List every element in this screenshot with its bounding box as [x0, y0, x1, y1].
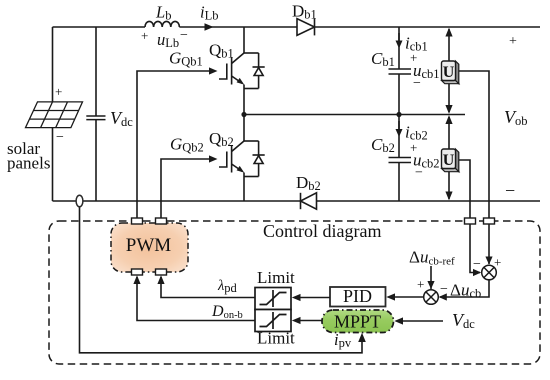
svg-text:PID: PID	[343, 286, 372, 306]
arrow sense2 up	[445, 115, 452, 124]
svg-text:−: −	[505, 181, 515, 201]
terminal sense wire left	[465, 218, 476, 224]
wire Vdc capacitor branch	[95, 27, 97, 116]
current arrow icb2	[396, 121, 403, 137]
terminal PWM top-right	[156, 218, 167, 224]
diode Db1	[297, 19, 315, 36]
svg-text:PWM: PWM	[126, 235, 172, 256]
arrow into Limit2	[292, 317, 301, 324]
arrow into PWM right-bottom	[157, 275, 164, 284]
svg-text:+: +	[509, 34, 517, 49]
arrow into S1 left	[473, 269, 481, 276]
wire gate GQb1	[137, 71, 210, 218]
terminal sense wire right	[484, 218, 495, 224]
arrow sense1 up	[445, 28, 452, 37]
svg-text:−: −	[56, 130, 64, 145]
svg-text:+: +	[55, 84, 62, 99]
wire bottom rail left segment	[53, 200, 301, 202]
wire PID to Limit1	[299, 297, 330, 299]
svg-text:MPPT: MPPT	[334, 312, 381, 332]
svg-text:+: +	[494, 255, 501, 270]
wire MPPT to Limit2	[299, 320, 322, 322]
wire top rail right segment	[315, 26, 541, 28]
svg-text:λpd: λpd	[217, 278, 238, 295]
capacitor Cb2 branch wires	[398, 115, 400, 158]
capacitor Cb2 plates	[389, 158, 412, 163]
sensor U1	[442, 61, 459, 84]
wire Qb2 emitter to bottom rail	[243, 173, 245, 202]
summing junction S2	[424, 290, 439, 305]
arrow gate GQb2	[209, 155, 218, 162]
wire Don-b to PWM	[137, 277, 255, 321]
wire top rail mid segment	[179, 26, 297, 28]
svg-text:−: −	[415, 166, 423, 181]
Limit box 1	[255, 288, 291, 310]
wire S2 to PID	[393, 296, 424, 298]
arrow sense2 down	[445, 192, 452, 201]
arrow into MPPT	[394, 317, 403, 324]
arrow into Limit1	[292, 294, 301, 301]
current arrow iLb	[205, 23, 214, 31]
svg-text:−: −	[413, 76, 421, 91]
wire voltage sense 1	[448, 29, 450, 61]
arrow into PWM left-bottom	[133, 275, 140, 284]
svg-text:Control diagram: Control diagram	[263, 221, 381, 241]
terminal PWM bottom-right	[156, 269, 167, 275]
svg-text:−: −	[180, 28, 188, 43]
inductor Lb	[145, 21, 179, 27]
diode Db2	[301, 193, 317, 209]
wire ucb-ref into S2	[430, 266, 432, 289]
svg-text:U: U	[443, 152, 455, 169]
wire voltage sense 2	[448, 117, 450, 149]
capacitor Cb1 branch wires	[398, 27, 400, 69]
svg-text:+: +	[417, 277, 424, 292]
wire lambda-pd to PWM	[161, 277, 255, 298]
wire gate GQb2	[161, 159, 210, 218]
svg-text:Limit: Limit	[257, 329, 295, 348]
transistor Q1 (IGBT)	[219, 53, 244, 85]
svg-text:+: +	[141, 28, 148, 43]
wire Qb1 collector to top rail	[243, 27, 245, 53]
capacitor Cb1 plates	[389, 69, 412, 74]
diode antiparallel D1	[244, 53, 265, 89]
wire sensor U1 output	[456, 71, 490, 264]
Limit box 2	[255, 310, 291, 332]
node mid rail junction Q	[241, 112, 246, 117]
solar panel	[26, 102, 83, 128]
control diagram dashed box	[49, 221, 540, 364]
wire Qb1 emitter to mid node	[243, 85, 245, 115]
terminal PWM top-left	[132, 218, 143, 224]
svg-text:Limit: Limit	[257, 268, 295, 287]
diode antiparallel D2	[244, 141, 265, 177]
PID block	[330, 287, 386, 307]
transistor Q2 (IGBT)	[219, 141, 244, 173]
arrow into PID	[386, 293, 395, 300]
wire Vdc input to MPPT	[401, 320, 443, 322]
capacitor Vdc plates	[86, 116, 105, 120]
wire mid rail	[244, 114, 465, 116]
arrow into S2 right	[439, 293, 447, 300]
svg-text:U: U	[443, 64, 455, 81]
wire sensor U2 output	[456, 160, 481, 273]
current sensor ellipse ipv	[76, 195, 83, 207]
wire ipv from current sensor	[80, 207, 363, 353]
svg-text:−: −	[473, 257, 481, 272]
wire left vertical (PV)	[52, 27, 54, 201]
svg-text:−: −	[440, 282, 448, 297]
arrow ipv into MPPT	[358, 333, 366, 342]
arrow into S2 top	[427, 281, 434, 289]
wire mid node to Qb2 collector	[243, 115, 245, 142]
MPPT block	[322, 310, 394, 333]
arrow gate GQb1	[209, 67, 218, 74]
terminal PWM bottom-left	[132, 269, 143, 275]
node mid rail junction C	[396, 112, 401, 117]
wire bottom rail right segment	[317, 200, 541, 202]
PWM block	[111, 223, 188, 272]
svg-text:panels: panels	[7, 154, 50, 173]
wire S1 output to S2	[440, 280, 489, 297]
arrow into S1 top	[485, 257, 492, 265]
sensor U2	[442, 149, 459, 172]
arrow sense1 down	[445, 105, 452, 114]
summing junction S1	[482, 265, 497, 280]
wire top rail left segment	[53, 26, 146, 28]
current arrow icb1	[396, 33, 403, 49]
